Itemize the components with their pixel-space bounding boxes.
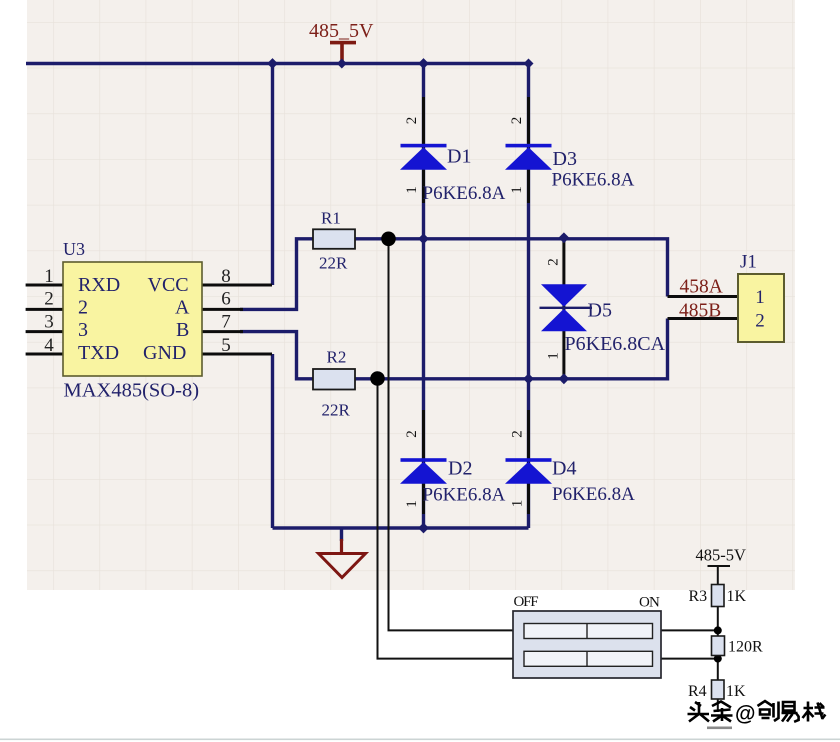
resistor R1 body bbox=[313, 229, 355, 249]
wire B-line from R2 to corner bbox=[355, 319, 668, 379]
wire R4 down bbox=[717, 699, 719, 712]
svg-text:1: 1 bbox=[404, 186, 420, 194]
power symbol 485_5V bar bbox=[330, 41, 356, 64]
svg-text:P6KE6.8CA: P6KE6.8CA bbox=[565, 333, 666, 355]
svg-text:458A: 458A bbox=[680, 277, 723, 298]
svg-text:U3: U3 bbox=[63, 239, 85, 259]
svg-text:2: 2 bbox=[546, 258, 562, 266]
svg-text:4: 4 bbox=[44, 335, 54, 356]
wire pin5 GND drop bbox=[271, 354, 274, 528]
svg-text:GND: GND bbox=[143, 342, 186, 364]
svg-text:ON: ON bbox=[639, 595, 660, 611]
svg-text:D2: D2 bbox=[448, 458, 472, 480]
svg-text:J1: J1 bbox=[740, 252, 757, 273]
wire VCC drop to pin8 bbox=[271, 64, 274, 286]
svg-text:7: 7 bbox=[221, 312, 231, 333]
svg-text:1: 1 bbox=[44, 266, 54, 287]
resistor R4 body bbox=[712, 680, 725, 699]
svg-text:1K: 1K bbox=[726, 683, 746, 700]
svg-text:1: 1 bbox=[404, 500, 420, 508]
junction top rail at D1 column bbox=[418, 58, 429, 69]
svg-text:A: A bbox=[175, 297, 190, 319]
svg-text:2: 2 bbox=[44, 289, 54, 310]
svg-text:2: 2 bbox=[78, 297, 88, 319]
svg-text:D4: D4 bbox=[552, 458, 576, 480]
diode D5 bottom triangle bbox=[541, 309, 587, 332]
D3 pin segment bbox=[527, 97, 530, 203]
switch slot 2 bbox=[524, 651, 653, 666]
D4 pin segment bbox=[527, 410, 530, 514]
diode D5 top triangle bbox=[541, 284, 587, 307]
junction dot B tap bbox=[370, 371, 385, 386]
wire B tap to switch row2 bbox=[378, 379, 514, 659]
diode D4 triangle bbox=[505, 462, 552, 484]
svg-text:1: 1 bbox=[546, 352, 562, 360]
junction dot A tap bbox=[381, 232, 396, 247]
svg-text:485-5V: 485-5V bbox=[696, 546, 746, 565]
svg-text:VCC: VCC bbox=[148, 274, 189, 296]
wire pin4 stub bbox=[26, 353, 63, 356]
svg-text:B: B bbox=[176, 319, 189, 341]
switch slot 2 divider bbox=[586, 651, 588, 666]
svg-text:485_5V: 485_5V bbox=[309, 20, 374, 42]
diode D2 cathode bar bbox=[401, 458, 447, 462]
wire J1 pin2 485B bbox=[668, 317, 739, 320]
wire D1 D2 column bbox=[422, 64, 425, 529]
wire pin3 stub bbox=[26, 330, 63, 333]
bottom grey line bbox=[0, 739, 840, 741]
junction ground rail at D2 column bbox=[418, 523, 429, 534]
wire pin8 stub bbox=[202, 284, 272, 287]
diode D3 triangle bbox=[505, 147, 552, 170]
wire switch row1 to R node bbox=[661, 629, 718, 631]
diode D5 middle bar bbox=[540, 307, 593, 309]
svg-text:3: 3 bbox=[78, 319, 88, 341]
wire 485-5V stem bbox=[717, 567, 719, 585]
svg-text:P6KE6.8A: P6KE6.8A bbox=[423, 183, 506, 204]
junction dot row1 node bbox=[714, 626, 722, 634]
diode D1 cathode bar bbox=[401, 144, 447, 148]
junction top rail at power stem bbox=[337, 59, 347, 69]
wire D5 column bbox=[562, 238, 565, 379]
svg-text:5: 5 bbox=[221, 335, 231, 356]
svg-text:485B: 485B bbox=[679, 301, 721, 322]
svg-text:1: 1 bbox=[755, 287, 765, 308]
svg-text:@: @ bbox=[735, 703, 755, 726]
svg-text:2: 2 bbox=[404, 430, 420, 438]
svg-text:8: 8 bbox=[221, 266, 231, 287]
svg-text:R3: R3 bbox=[689, 588, 708, 605]
junction A-line at D1 column bbox=[418, 233, 429, 244]
wire J1 pin1 458A bbox=[668, 295, 739, 298]
svg-text:2: 2 bbox=[755, 311, 765, 332]
schematic paper background bbox=[27, 0, 795, 590]
svg-text:R2: R2 bbox=[327, 348, 347, 367]
wire pin7 to R2 dropper bbox=[240, 332, 313, 379]
svg-text:3: 3 bbox=[44, 312, 54, 333]
ground bar under R4 bbox=[707, 727, 732, 730]
junction top rail corner D3 bbox=[524, 59, 534, 69]
wire pin6 to R1 riser bbox=[240, 239, 313, 310]
connector J1 body bbox=[738, 274, 784, 342]
svg-text:D3: D3 bbox=[553, 148, 577, 170]
junction dot row2 node bbox=[714, 655, 722, 663]
watermark toutiao chars bbox=[688, 701, 826, 722]
diode D4 cathode bar bbox=[506, 458, 552, 462]
wire A-line from R1 to corner bbox=[355, 239, 668, 297]
svg-text:P6KE6.8A: P6KE6.8A bbox=[423, 485, 506, 506]
svg-text:22R: 22R bbox=[322, 401, 351, 420]
resistor R3 body bbox=[712, 585, 725, 607]
wire A tap to switch row1 bbox=[389, 239, 514, 631]
svg-text:OFF: OFF bbox=[514, 594, 539, 610]
D1 pin segment bbox=[422, 97, 425, 203]
svg-text:1K: 1K bbox=[727, 588, 747, 605]
resistor R5 120R body bbox=[712, 636, 725, 656]
svg-text:TXD: TXD bbox=[78, 342, 119, 364]
wire R3 to node bbox=[717, 607, 719, 637]
ground symbol triangle bbox=[319, 554, 366, 578]
wire pin5 stub bbox=[202, 353, 272, 356]
diode D2 triangle bbox=[400, 462, 447, 484]
svg-text:6: 6 bbox=[221, 289, 231, 310]
svg-text:D5: D5 bbox=[588, 300, 612, 322]
junction B-line at D5 bottom bbox=[559, 373, 570, 384]
wire D3 D4 column bbox=[527, 64, 530, 529]
power bar 485-5V bbox=[708, 565, 731, 567]
svg-text:P6KE6.8A: P6KE6.8A bbox=[552, 484, 635, 505]
wire top power rail bbox=[26, 62, 529, 65]
resistor R2 body bbox=[313, 369, 355, 390]
switch S1 body bbox=[513, 611, 661, 678]
svg-text:RXD: RXD bbox=[78, 274, 120, 296]
power symbol stem bbox=[340, 44, 344, 64]
svg-text:P6KE6.8A: P6KE6.8A bbox=[552, 170, 635, 191]
svg-text:2: 2 bbox=[404, 117, 420, 125]
junction A-line at D5 top bbox=[559, 232, 570, 243]
switch slot 1 bbox=[524, 624, 653, 639]
wire pin2 stub bbox=[26, 308, 63, 311]
wire pin6 stub bbox=[202, 308, 243, 311]
svg-text:1: 1 bbox=[509, 186, 525, 194]
svg-text:22R: 22R bbox=[319, 254, 348, 273]
junction B-line at D3 column bbox=[523, 373, 534, 384]
svg-text:2: 2 bbox=[510, 430, 526, 438]
junction top rail at VCC drop bbox=[267, 58, 278, 69]
svg-text:D1: D1 bbox=[447, 146, 471, 168]
wire pin7 stub bbox=[202, 330, 243, 333]
wire switch row2 to R node bbox=[661, 658, 718, 660]
svg-text:MAX485(SO-8): MAX485(SO-8) bbox=[64, 380, 200, 402]
svg-text:2: 2 bbox=[509, 117, 525, 125]
svg-text:1: 1 bbox=[510, 500, 526, 508]
wire pin1 stub bbox=[26, 284, 63, 287]
ground stem bbox=[340, 539, 343, 553]
op-amp U3 chip body MAX485 bbox=[63, 262, 202, 376]
wire ground rail bbox=[273, 526, 529, 529]
svg-text:R4: R4 bbox=[688, 683, 707, 700]
switch slot 1 divider bbox=[586, 624, 588, 639]
diode D3 cathode bar bbox=[506, 144, 552, 148]
D2 pin segment bbox=[422, 410, 425, 514]
wire ground stem stub bbox=[340, 528, 343, 541]
svg-text:R1: R1 bbox=[321, 209, 341, 228]
diode D1 triangle bbox=[400, 147, 447, 170]
wire node to R4 bbox=[717, 656, 719, 681]
svg-text:120R: 120R bbox=[728, 639, 763, 656]
